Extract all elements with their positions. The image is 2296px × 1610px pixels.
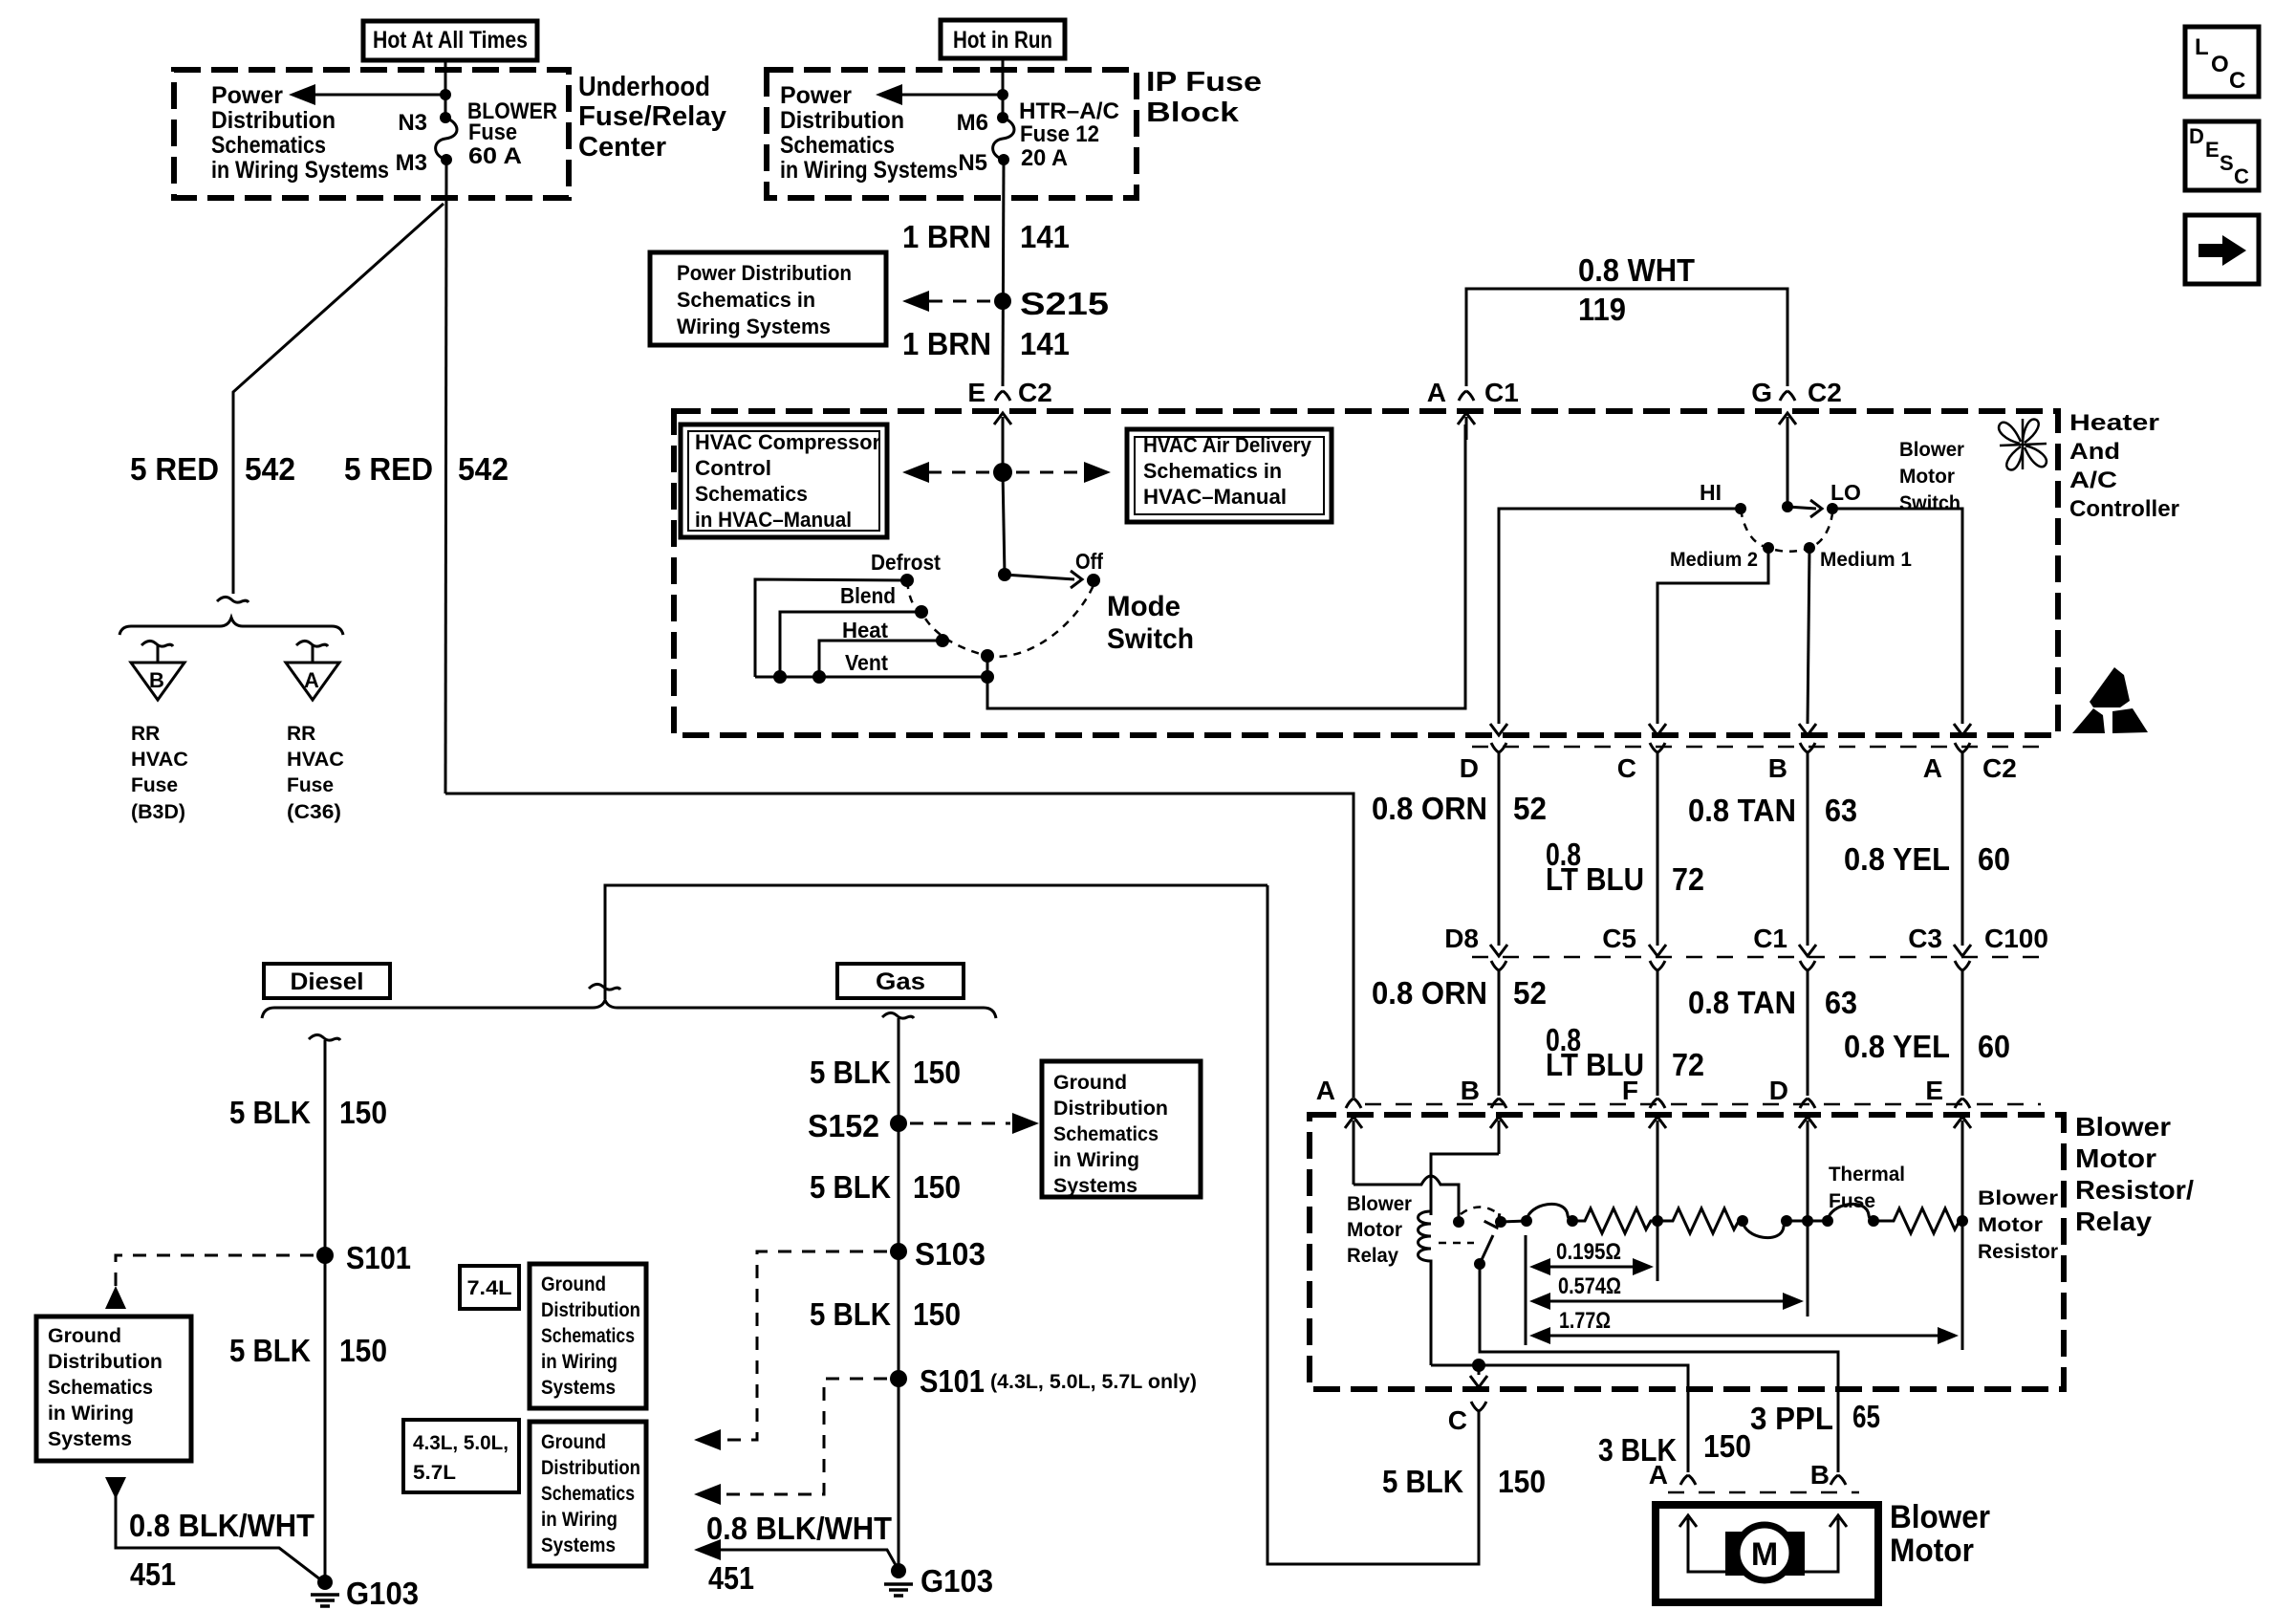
- svg-text:Controller: Controller: [2069, 496, 2179, 522]
- diesel ground wire 5 BLK 150: [324, 1040, 327, 1579]
- svg-text:RR: RR: [287, 723, 315, 745]
- label Blower Motor Relay: [1347, 1193, 1412, 1267]
- svg-text:60: 60: [1978, 1029, 2010, 1064]
- chain node: [1822, 1215, 1833, 1227]
- junction at F tap: [1652, 1215, 1663, 1227]
- svg-text:Diesel: Diesel: [291, 968, 364, 995]
- svg-text:HVAC Compressor: HVAC Compressor: [695, 430, 880, 454]
- svg-text:52: 52: [1513, 975, 1547, 1011]
- svg-text:LT BLU: LT BLU: [1546, 861, 1644, 897]
- thin dashed connector line at blower motor: [1668, 1491, 1859, 1494]
- wire Heat contact: [819, 641, 942, 677]
- label Underhood Fuse/Relay Center: [578, 72, 726, 163]
- svg-text:Distribution: Distribution: [541, 1457, 640, 1479]
- svg-text:HVAC–Manual: HVAC–Manual: [1143, 485, 1287, 509]
- svg-text:Fuse/Relay: Fuse/Relay: [578, 101, 726, 132]
- svg-text:A: A: [1316, 1076, 1335, 1105]
- connector D of C2: [1460, 724, 1507, 783]
- resistor element 2: [1657, 1208, 1743, 1233]
- svg-text:B: B: [1461, 1076, 1480, 1105]
- svg-text:in Wiring Systems: in Wiring Systems: [211, 157, 389, 184]
- svg-text:150: 150: [1703, 1428, 1751, 1464]
- svg-text:G: G: [1751, 378, 1772, 407]
- wire HI to connector D: [1499, 509, 1741, 724]
- svg-text:Blower: Blower: [1899, 439, 1964, 461]
- wire 0.8 WHT 119 loop: [1466, 289, 1787, 386]
- blower motor lead B with arrow: [1801, 1515, 1847, 1572]
- svg-text:Gas: Gas: [876, 968, 925, 995]
- relay actuation dashed link from coil: [1439, 1242, 1474, 1245]
- svg-text:E: E: [1925, 1076, 1943, 1105]
- node junction dot: [440, 89, 451, 100]
- svg-text:Underhood: Underhood: [578, 72, 710, 102]
- splice S101 (gas): [890, 1363, 1197, 1399]
- ground G103 (diesel): [311, 1575, 419, 1610]
- contact HI: [1735, 503, 1746, 514]
- contact Medium 2: [1763, 542, 1774, 554]
- wire Vent contact: [986, 656, 989, 677]
- contact Medium 1: [1804, 542, 1815, 554]
- dashed reference arrow from S215 to power distribution box: [902, 291, 990, 312]
- svg-text:Thermal: Thermal: [1829, 1164, 1905, 1186]
- svg-text:C5: C5: [1602, 924, 1636, 953]
- connector A / C1: [1427, 378, 1519, 440]
- svg-text:Motor: Motor: [1978, 1214, 2043, 1236]
- thin dashed connector line above resistor block: [1365, 1103, 2041, 1106]
- connector C5: [1602, 924, 1666, 970]
- wire label 0.8 LT BLU 72 (lower): [1546, 1022, 1704, 1082]
- IP fuse block dashed box: [767, 70, 1137, 198]
- connector B of C2: [1768, 724, 1816, 783]
- svg-text:4.3L, 5.0L,: 4.3L, 5.0L,: [413, 1432, 509, 1454]
- label box "Hot in Run": [941, 20, 1065, 58]
- svg-text:M: M: [1751, 1536, 1778, 1573]
- contact Vent: [981, 649, 994, 663]
- svg-text:0.8 WHT: 0.8 WHT: [1578, 252, 1695, 288]
- ESD sensitivity symbol: [2072, 667, 2148, 733]
- svg-text:HVAC: HVAC: [131, 749, 188, 771]
- LOC icon box: [2185, 27, 2259, 97]
- svg-text:Fuse: Fuse: [287, 774, 334, 796]
- svg-text:Distribution: Distribution: [211, 107, 336, 134]
- svg-text:542: 542: [245, 451, 295, 487]
- svg-text:C100: C100: [1984, 924, 2048, 953]
- svg-text:Schematics in: Schematics in: [677, 288, 815, 312]
- label box "Hot At All Times": [363, 21, 537, 60]
- thin dashed connector line C100 mid row: [1472, 956, 2041, 959]
- svg-text:G103: G103: [346, 1576, 419, 1610]
- connector A of C2: [1923, 724, 1971, 783]
- svg-text:S103: S103: [915, 1236, 986, 1272]
- svg-text:Relay: Relay: [2075, 1207, 2152, 1236]
- svg-text:Heater: Heater: [2069, 410, 2159, 436]
- svg-text:S101: S101: [346, 1240, 411, 1275]
- connector at brace center: [589, 984, 620, 990]
- connector B of blower motor: [1810, 1460, 1846, 1490]
- dashed reference from S101 to 4.3L ground box: [694, 1379, 887, 1505]
- measurement 0.574 ohm: [1529, 1273, 1804, 1310]
- arrow to power distribution schematics: [289, 84, 445, 105]
- label box Diesel: [264, 964, 390, 998]
- mode switch wafer arc (dashed): [907, 581, 1094, 657]
- label IP Fuse Block: [1146, 67, 1262, 128]
- svg-text:C1: C1: [1484, 378, 1519, 407]
- svg-text:Schematics: Schematics: [780, 132, 895, 159]
- wire label 0.8 ORN 52 (lower): [1372, 975, 1547, 1011]
- svg-text:Heat: Heat: [842, 618, 888, 642]
- motor M symbol: [1725, 1525, 1805, 1580]
- contact Off: [1087, 574, 1100, 587]
- svg-text:Ground: Ground: [1053, 1072, 1127, 1094]
- blower motor resistor/relay dashed box: [1310, 1115, 2064, 1389]
- contact Blend: [915, 605, 928, 619]
- text Power Distribution Schematics in Wiring Systems: [211, 82, 389, 184]
- DESC icon box: [2185, 121, 2259, 190]
- reference box 4.3L, 5.0L, 5.7L: [403, 1420, 519, 1492]
- svg-text:0.8 TAN: 0.8 TAN: [1688, 985, 1796, 1020]
- blower motor lead A with arrow: [1679, 1515, 1729, 1572]
- svg-text:D: D: [2189, 124, 2204, 148]
- svg-text:LO: LO: [1830, 480, 1861, 505]
- mode switch common node: [998, 568, 1011, 581]
- harness brace Diesel/Gas: [262, 1000, 996, 1018]
- svg-text:in Wiring: in Wiring: [541, 1351, 617, 1373]
- svg-text:451: 451: [708, 1560, 754, 1596]
- svg-text:Wiring Systems: Wiring Systems: [677, 315, 831, 338]
- svg-text:C: C: [1448, 1405, 1467, 1435]
- svg-text:(C36): (C36): [287, 801, 341, 823]
- svg-text:542: 542: [458, 451, 509, 487]
- fuse holder A (RR HVAC Fuse C36): [286, 663, 339, 700]
- svg-text:Ground: Ground: [541, 1273, 606, 1295]
- junction at D tap: [1802, 1215, 1813, 1227]
- wire connector A to relay contact: [1354, 1176, 1459, 1222]
- reference box Power Distribution Schematics in Wiring Systems: [650, 252, 886, 345]
- svg-text:Medium 1: Medium 1: [1820, 549, 1912, 571]
- svg-text:0.8 ORN: 0.8 ORN: [1372, 975, 1487, 1011]
- svg-text:C3: C3: [1908, 924, 1942, 953]
- svg-text:0.195Ω: 0.195Ω: [1556, 1239, 1621, 1265]
- contact Heat: [936, 634, 949, 647]
- wire 0.8 TAN 63 (lower): [1807, 970, 1809, 1096]
- svg-text:141: 141: [1020, 326, 1070, 361]
- svg-text:150: 150: [339, 1333, 387, 1368]
- svg-text:0.8 ORN: 0.8 ORN: [1372, 791, 1487, 826]
- wire label 5 RED 542 (right): [344, 451, 509, 487]
- fan icon: [1999, 419, 2047, 469]
- splice S215: [994, 286, 1109, 321]
- wire 0.8 YEL 60 (lower): [1961, 970, 1964, 1096]
- svg-text:O: O: [2211, 52, 2229, 77]
- svg-text:N3: N3: [398, 110, 427, 136]
- svg-text:Center: Center: [578, 132, 666, 163]
- svg-text:S215: S215: [1020, 286, 1109, 321]
- svg-text:Systems: Systems: [1053, 1175, 1137, 1197]
- D tap stub for 0.574 ohm: [1807, 1221, 1809, 1316]
- arrow to power distribution schematics: [876, 84, 1003, 105]
- svg-text:Blend: Blend: [840, 583, 896, 608]
- svg-text:5 RED: 5 RED: [344, 451, 433, 487]
- relay common contact: [1495, 1216, 1506, 1228]
- wire 0.8 ORN 52 (upper): [1498, 752, 1501, 946]
- connector C1: [1753, 924, 1816, 970]
- dashed reference from S101 to ground distribution box: [105, 1255, 314, 1309]
- wire 0.8 LT BLU 72 (lower): [1657, 970, 1659, 1096]
- gas ground wire 5 BLK 150: [898, 1018, 900, 1568]
- splice node in controller feed: [993, 463, 1012, 482]
- svg-text:Switch: Switch: [1107, 623, 1194, 655]
- fuse HTR-A/C Fuse 12 20 A: [993, 112, 1014, 165]
- svg-text:0.8 BLK/WHT: 0.8 BLK/WHT: [129, 1508, 314, 1543]
- label RR HVAC Fuse (C36): [287, 723, 344, 823]
- wire label 1 BRN 141 (upper): [902, 219, 1070, 254]
- wire label 0.8 TAN 63 (lower): [1688, 985, 1857, 1020]
- connector C out of resistor block: [1267, 885, 1487, 1564]
- splice S103: [890, 1236, 986, 1272]
- svg-text:M6: M6: [957, 110, 988, 136]
- svg-text:0.8 YEL: 0.8 YEL: [1844, 1029, 1950, 1064]
- wire label 0.8 BLK/WHT 451 (diesel): [129, 1508, 314, 1592]
- wire 5 RED 542 (right leg, to blower resistor block): [445, 160, 446, 794]
- mode switch output bus: [755, 424, 1465, 708]
- wire label 5 BLK 150 (gas lower): [810, 1296, 961, 1332]
- connector D into resistor block: [1769, 1076, 1816, 1221]
- label box Gas: [837, 964, 964, 998]
- relay contact dashed link: [1461, 1207, 1499, 1215]
- svg-text:Switch: Switch: [1899, 492, 1960, 514]
- svg-text:C: C: [1617, 753, 1636, 783]
- fuse BLOWER Fuse 60 A: [436, 112, 457, 165]
- wire label 3 BLK 150: [1598, 1428, 1751, 1468]
- measurement reference line: [1525, 1235, 1527, 1345]
- svg-text:Ground: Ground: [48, 1325, 121, 1347]
- fuse value label: [467, 98, 557, 169]
- wire Defrost contact: [755, 579, 907, 677]
- svg-text:Schematics: Schematics: [541, 1325, 635, 1347]
- svg-text:150: 150: [913, 1296, 961, 1332]
- svg-text:5 BLK: 5 BLK: [810, 1055, 891, 1090]
- svg-text:3 PPL: 3 PPL: [1750, 1401, 1833, 1436]
- svg-text:63: 63: [1825, 793, 1857, 828]
- svg-text:C: C: [2234, 164, 2249, 188]
- underhood fuse/relay center dashed box: [174, 70, 569, 198]
- label Heater And A/C Controller: [2069, 410, 2179, 522]
- svg-text:52: 52: [1513, 791, 1547, 826]
- thin dashed connector line C2: [1472, 746, 2041, 749]
- svg-text:Schematics: Schematics: [48, 1377, 153, 1399]
- wire 1 BRN 141 (fuse to S215): [1003, 160, 1004, 386]
- svg-text:5 RED: 5 RED: [130, 451, 219, 487]
- svg-text:A: A: [1427, 378, 1446, 407]
- wire label 5 BLK 150 (gas mid): [810, 1169, 961, 1205]
- svg-text:5 BLK: 5 BLK: [1382, 1464, 1463, 1499]
- svg-text:60: 60: [1978, 841, 2010, 877]
- svg-text:Vent: Vent: [845, 650, 888, 675]
- wire label 3 PPL 65: [1750, 1399, 1880, 1436]
- svg-text:in HVAC–Manual: in HVAC–Manual: [695, 508, 852, 532]
- wire connector B to relay coil: [1431, 1154, 1499, 1215]
- svg-text:(4.3L, 5.0L, 5.7L only): (4.3L, 5.0L, 5.7L only): [990, 1371, 1197, 1393]
- svg-text:119: 119: [1578, 292, 1626, 327]
- wire label 1 BRN 141 (lower): [902, 326, 1070, 361]
- svg-text:0.8 TAN: 0.8 TAN: [1688, 793, 1796, 828]
- svg-text:20 A: 20 A: [1021, 145, 1068, 171]
- svg-text:And: And: [2069, 439, 2120, 465]
- svg-text:Distribution: Distribution: [1053, 1098, 1168, 1120]
- wire 542 run to blower resistor connector A: [445, 794, 1354, 1098]
- measurement 1.77 ohm: [1529, 1308, 1959, 1344]
- thermal fuse hump 3: [1828, 1204, 1879, 1227]
- harness brace over RR HVAC fuses: [119, 618, 343, 635]
- wire label 0.8 YEL 60 (upper): [1844, 841, 2010, 877]
- svg-text:S101: S101: [920, 1363, 985, 1399]
- wire label 5 RED 542 (left): [130, 451, 295, 487]
- svg-text:Off: Off: [1075, 549, 1103, 574]
- svg-text:S152: S152: [808, 1108, 879, 1143]
- svg-text:Resistor: Resistor: [1978, 1241, 2058, 1263]
- svg-text:Motor: Motor: [1899, 466, 1955, 488]
- wire label 0.8 LT BLU 72 (upper): [1546, 837, 1704, 897]
- svg-text:RR: RR: [131, 723, 160, 745]
- svg-text:L: L: [2195, 34, 2209, 60]
- ground G103 (gas): [884, 1563, 993, 1599]
- svg-text:Systems: Systems: [541, 1377, 616, 1399]
- svg-text:B: B: [1768, 753, 1787, 783]
- connector C3: [1908, 924, 1971, 970]
- svg-text:E: E: [967, 378, 986, 407]
- wire label 0.8 WHT 119: [1578, 252, 1695, 327]
- svg-text:Hot At All Times: Hot At All Times: [373, 27, 528, 54]
- wire Blend contact: [780, 612, 921, 677]
- svg-text:150: 150: [339, 1095, 387, 1130]
- forward arrow icon box: [2185, 215, 2259, 284]
- thermal fuse hump 1: [1527, 1204, 1578, 1227]
- svg-text:Defrost: Defrost: [871, 550, 941, 575]
- svg-text:1.77Ω: 1.77Ω: [1559, 1308, 1611, 1334]
- svg-text:141: 141: [1020, 219, 1070, 254]
- svg-text:Distribution: Distribution: [541, 1299, 640, 1321]
- text Power Distribution Schematics in Wiring Systems: [780, 82, 958, 184]
- splice S152: [808, 1108, 907, 1143]
- wire label 5 BLK 150 (diesel lower): [229, 1333, 387, 1368]
- svg-text:150: 150: [913, 1169, 961, 1205]
- wire label 0.8 BLK/WHT 451 (gas): [706, 1511, 892, 1596]
- junction dots on mode switch bus: [773, 670, 994, 684]
- connector E / C2 into controller: [967, 378, 1051, 472]
- svg-text:E: E: [2205, 138, 2220, 162]
- wire label 0.8 TAN 63 (upper): [1688, 793, 1857, 828]
- svg-text:A: A: [304, 668, 319, 692]
- svg-text:72: 72: [1672, 1047, 1704, 1082]
- resistor element 3: [1874, 1208, 1962, 1233]
- wire 0.8 BLK/WHT 451 (gas): [694, 1539, 896, 1565]
- connector F into resistor block: [1622, 1076, 1666, 1221]
- wire 0.8 TAN 63 (upper): [1807, 752, 1809, 946]
- wire label 0.8 YEL 60 (lower): [1844, 1029, 2010, 1064]
- connector E into resistor block: [1925, 1076, 1971, 1221]
- svg-text:Power: Power: [211, 82, 283, 109]
- wire 0.8 YEL 60 (upper): [1961, 752, 1964, 946]
- measurement 0.195 ohm: [1529, 1239, 1654, 1275]
- svg-text:S: S: [2220, 151, 2234, 175]
- svg-text:Distribution: Distribution: [48, 1351, 162, 1373]
- dashed reference arrow to HVAC air delivery schematics: [1016, 462, 1111, 483]
- connector A into resistor block: [1316, 1076, 1362, 1185]
- connector C of C2: [1617, 724, 1666, 783]
- svg-text:D: D: [1460, 753, 1479, 783]
- svg-text:D: D: [1769, 1076, 1788, 1105]
- svg-text:D8: D8: [1444, 924, 1479, 953]
- svg-text:Relay: Relay: [1347, 1245, 1398, 1267]
- svg-text:HVAC Air Delivery: HVAC Air Delivery: [1143, 433, 1312, 457]
- reference box HVAC Air Delivery Schematics in HVAC-Manual: [1127, 429, 1332, 522]
- wire Medium 1 to connector B: [1808, 548, 1809, 724]
- resistor chain node: [1521, 1215, 1532, 1227]
- svg-text:451: 451: [130, 1556, 176, 1592]
- svg-text:Blower: Blower: [1978, 1187, 2058, 1209]
- svg-text:Fuse: Fuse: [468, 120, 517, 145]
- svg-text:(B3D): (B3D): [131, 801, 185, 823]
- svg-text:Motor: Motor: [1890, 1533, 1974, 1569]
- connector D8: [1444, 924, 1507, 970]
- ground bus riser to brace: [605, 885, 1267, 999]
- svg-text:60 A: 60 A: [468, 143, 522, 169]
- svg-text:Systems: Systems: [541, 1534, 616, 1556]
- chain end node at E tap: [1957, 1215, 1968, 1227]
- svg-text:Schematics: Schematics: [211, 132, 326, 159]
- svg-text:Power: Power: [780, 82, 852, 109]
- svg-text:Control: Control: [695, 456, 771, 480]
- svg-text:Hot in Run: Hot in Run: [953, 27, 1052, 54]
- connector A of blower motor: [1649, 1460, 1696, 1490]
- dashed reference from S152 to ground distribution box: [910, 1113, 1039, 1134]
- wire from Hot At All Times into fuse: [444, 60, 447, 118]
- svg-text:Distribution: Distribution: [780, 107, 904, 134]
- fuse value label: [1019, 98, 1119, 171]
- svg-text:in Wiring Systems: in Wiring Systems: [780, 157, 958, 184]
- svg-text:C: C: [2229, 68, 2245, 94]
- connector on gas ground wire: [882, 1012, 914, 1018]
- wire label 5 BLK 150 (diesel upper): [229, 1095, 387, 1130]
- label Blower Motor Resistor: [1978, 1187, 2058, 1263]
- svg-text:HVAC: HVAC: [287, 749, 344, 771]
- connector B into resistor block: [1461, 1076, 1507, 1154]
- svg-text:0.8 BLK/WHT: 0.8 BLK/WHT: [706, 1511, 892, 1546]
- svg-text:Medium 2: Medium 2: [1670, 549, 1758, 571]
- svg-text:Schematics: Schematics: [541, 1483, 635, 1505]
- svg-text:5 BLK: 5 BLK: [810, 1296, 891, 1332]
- reference box Ground Distribution Schematics in Wiring Systems (gas): [1042, 1061, 1201, 1197]
- wire label 5 BLK 150 (blower ground): [1382, 1464, 1546, 1499]
- svg-text:Block: Block: [1146, 98, 1240, 128]
- svg-text:HTR–A/C: HTR–A/C: [1019, 98, 1119, 124]
- svg-text:Resistor/: Resistor/: [2075, 1175, 2194, 1205]
- connector G / C2: [1751, 378, 1842, 507]
- label Blower Motor: [1890, 1499, 1990, 1569]
- svg-text:Schematics: Schematics: [1053, 1123, 1159, 1145]
- svg-text:Fuse: Fuse: [1829, 1190, 1875, 1212]
- wire 0.8 BLK/WHT 451 (diesel): [105, 1477, 320, 1579]
- svg-text:Systems: Systems: [48, 1428, 132, 1450]
- svg-text:0.8 YEL: 0.8 YEL: [1844, 841, 1950, 877]
- reference box Ground Distribution Schematics in Wiring Systems (7.4L): [530, 1264, 646, 1408]
- svg-text:Mode: Mode: [1107, 591, 1180, 622]
- svg-text:Schematics in: Schematics in: [1143, 459, 1282, 483]
- svg-text:A: A: [1649, 1460, 1668, 1490]
- svg-text:1 BRN: 1 BRN: [902, 326, 991, 361]
- mode switch blade to Off: [1005, 571, 1082, 588]
- relay coil (Blower Motor Relay): [1419, 1211, 1432, 1365]
